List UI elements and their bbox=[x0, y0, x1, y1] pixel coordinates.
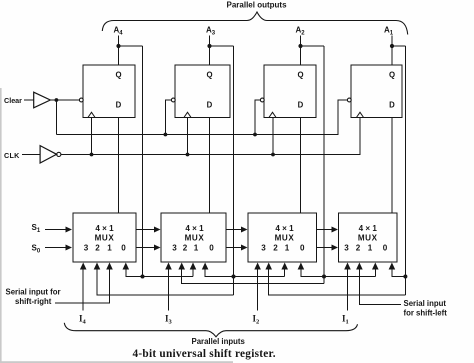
wire: CLK riser to FF1 bbox=[91, 118, 93, 155]
svg-text:2: 2 bbox=[183, 244, 188, 253]
wire: MUX1 input 0 hold feedback segment bbox=[126, 268, 193, 277]
arrowhead MUX4 input 1 bbox=[372, 263, 379, 270]
wire: S1 rail MUX1 to MUX2 bbox=[136, 229, 155, 231]
wire: MUX3 input 0 hold feedback segment bbox=[301, 268, 375, 277]
svg-text:A3: A3 bbox=[206, 26, 216, 37]
wire: node A1 to FF4 Q input bbox=[391, 46, 393, 65]
wire: A1 terminal stub bbox=[391, 36, 393, 47]
svg-text:Q: Q bbox=[389, 70, 395, 79]
wire: MUX3 output to FF3 D input bbox=[300, 118, 302, 214]
wire: S1 rail MUX3 to MUX4 bbox=[317, 229, 333, 231]
wire: A2 terminal stub bbox=[300, 36, 302, 47]
junction dot bus at A3 channel bbox=[232, 275, 236, 279]
svg-text:Parallel outputs: Parallel outputs bbox=[227, 1, 288, 10]
wire: parallel input I4 stem to MUX1 input 3 bbox=[82, 268, 84, 311]
wire: MUX4 output to FF4 D input bbox=[391, 118, 393, 214]
svg-text:I2: I2 bbox=[253, 314, 260, 326]
svg-text:3: 3 bbox=[172, 244, 177, 253]
FF3 clear input bubble bbox=[260, 98, 264, 102]
junction dot bus at A2 channel bbox=[322, 275, 326, 279]
wire: MUX1 input 2 from A3 channel bbox=[97, 268, 234, 295]
inverter U2 (CLK buffer triangle) bbox=[40, 146, 57, 163]
svg-text:S0: S0 bbox=[32, 244, 41, 255]
svg-text:Q: Q bbox=[115, 70, 121, 79]
inverter U1 (Clear buffer triangle) bbox=[34, 92, 51, 108]
junction dot CLK at FF2 bbox=[186, 153, 190, 157]
bubble on CLK inverter output bbox=[57, 152, 61, 156]
multiplexer MUX2 box bbox=[161, 213, 226, 262]
wire: parallel input I3 stem to MUX2 input 3 bbox=[168, 268, 170, 311]
wire: MUX1 output to FF1 D input bbox=[118, 118, 120, 214]
arrowhead MUX4 input 3 bbox=[344, 263, 351, 270]
svg-text:D: D bbox=[116, 101, 122, 110]
svg-text:4 × 1: 4 × 1 bbox=[359, 224, 378, 233]
arrowhead S1 into MUX4 bbox=[332, 227, 339, 233]
node A3 junction dot bbox=[207, 44, 211, 48]
svg-text:1: 1 bbox=[107, 244, 112, 253]
wire: CLK riser to FF2 bbox=[187, 118, 189, 155]
svg-text:4-bit universal shift register: 4-bit universal shift register. bbox=[133, 348, 276, 360]
bottom brace for parallel inputs bbox=[64, 323, 357, 337]
wire: A3 terminal stub bbox=[209, 36, 211, 47]
junction dot clear rail at FF2 riser bbox=[164, 133, 168, 137]
wire: node A2 feedback to channel bbox=[301, 45, 325, 47]
svg-text:0: 0 bbox=[209, 244, 214, 253]
arrowhead MUX2 input 0 bbox=[202, 263, 209, 270]
svg-text:A4: A4 bbox=[114, 26, 124, 37]
junction dot bus at A1 channel bbox=[403, 275, 407, 279]
arrowhead S1 into MUX1 bbox=[66, 227, 73, 233]
arrowhead S0 into MUX3 bbox=[241, 245, 248, 251]
wire: MUX4 input 0 hold feedback segment bbox=[392, 268, 406, 277]
svg-text:4 × 1: 4 × 1 bbox=[95, 224, 114, 233]
svg-text:D: D bbox=[298, 101, 304, 110]
wire: S1 input arrow into MUX1 bbox=[45, 229, 66, 231]
wire: node A2 to FF3 Q input bbox=[300, 46, 302, 65]
arrowhead MUX3 input 3 bbox=[254, 263, 261, 270]
svg-text:4 × 1: 4 × 1 bbox=[275, 224, 294, 233]
wire: node A4 feedback to channel bbox=[119, 45, 143, 47]
arrowhead MUX3 input 1 bbox=[281, 263, 288, 270]
FF2 clear input bubble bbox=[171, 98, 175, 102]
svg-text:CLK: CLK bbox=[4, 151, 20, 160]
arrowhead MUX2 input 3 bbox=[165, 263, 172, 270]
svg-text:shift-right: shift-right bbox=[15, 297, 52, 306]
wire: clear riser to FF2 bbox=[165, 100, 171, 135]
wire: S0 input arrow into MUX1 bbox=[45, 247, 66, 249]
svg-text:4 × 1: 4 × 1 bbox=[185, 224, 204, 233]
svg-text:I1: I1 bbox=[342, 314, 349, 326]
wire: S0 rail MUX3 to MUX4 bbox=[317, 247, 333, 249]
wire: clear riser to FF3 bbox=[255, 100, 260, 135]
wire: S0 rail MUX2 to MUX3 bbox=[226, 247, 242, 249]
svg-text:0: 0 bbox=[121, 244, 126, 253]
flip-flop FF1 box bbox=[83, 65, 135, 118]
arrowhead MUX2 input 2 bbox=[178, 263, 185, 270]
svg-text:0: 0 bbox=[383, 244, 388, 253]
multiplexer MUX3 box bbox=[248, 213, 317, 262]
junction dot CLK at FF3 bbox=[271, 153, 275, 157]
svg-text:for shift-left: for shift-left bbox=[404, 309, 448, 318]
svg-text:1: 1 bbox=[368, 244, 373, 253]
wire: A4 terminal stub bbox=[118, 36, 120, 47]
svg-text:0: 0 bbox=[300, 244, 305, 253]
arrowhead S0 into MUX4 bbox=[332, 245, 339, 251]
svg-text:A2: A2 bbox=[296, 26, 306, 37]
svg-text:1: 1 bbox=[285, 244, 290, 253]
svg-text:2: 2 bbox=[95, 244, 100, 253]
wire: node A1 feedback to channel bbox=[392, 45, 405, 47]
FF4 clock edge caret bbox=[356, 112, 363, 117]
svg-text:MUX: MUX bbox=[95, 234, 115, 243]
wire: A3 channel vertical bbox=[233, 46, 235, 295]
svg-text:Clear: Clear bbox=[4, 96, 22, 105]
arrowhead S1 into MUX2 bbox=[154, 227, 161, 233]
svg-text:Parallel inputs: Parallel inputs bbox=[192, 337, 246, 346]
wire: S0 rail MUX1 to MUX2 bbox=[136, 247, 155, 249]
node A4 junction dot bbox=[116, 44, 120, 48]
svg-text:3: 3 bbox=[84, 244, 89, 253]
wire: CLK rail across stages bbox=[61, 118, 360, 155]
svg-text:Serial input: Serial input bbox=[404, 299, 447, 308]
svg-text:1: 1 bbox=[194, 244, 199, 253]
scan artifact left edge bbox=[0, 88, 2, 363]
svg-text:Q: Q bbox=[206, 70, 212, 79]
top brace for parallel outputs bbox=[102, 12, 407, 35]
svg-text:D: D bbox=[207, 101, 213, 110]
wire: CLK label to inverter bbox=[22, 154, 40, 156]
FF4 clear input bubble bbox=[347, 98, 351, 102]
wire: CLK riser to FF3 bbox=[272, 118, 274, 155]
multiplexer MUX4 box bbox=[339, 213, 398, 262]
wire: node A3 feedback to channel bbox=[210, 45, 234, 47]
wire: parallel input I2 stem to MUX3 input 3 bbox=[257, 268, 259, 311]
wire: A4 channel vertical bbox=[142, 46, 144, 277]
wire: parallel input I1 stem to MUX4 input 3 bbox=[347, 268, 349, 311]
wire: clear rail across stages bbox=[56, 100, 347, 135]
FF1 clock edge caret bbox=[88, 112, 95, 117]
arrowhead S0 into MUX2 bbox=[154, 245, 161, 251]
flip-flop FF3 box bbox=[264, 65, 316, 118]
FF1 clear input bubble bbox=[79, 98, 83, 102]
scan artifact bottom edge bbox=[0, 361, 233, 363]
svg-text:A1: A1 bbox=[384, 26, 394, 37]
arrowhead MUX4 input 2 bbox=[356, 263, 363, 270]
svg-text:3: 3 bbox=[344, 244, 349, 253]
arrowhead MUX1 input 0 bbox=[123, 263, 130, 270]
junction dot at clear fan-out bbox=[55, 98, 59, 102]
wire: MUX4 input 2 from serial shift-left bbox=[359, 268, 401, 305]
wire: S1 rail MUX2 to MUX3 bbox=[226, 229, 242, 231]
arrowhead MUX2 input 1 bbox=[190, 263, 197, 270]
svg-text:2: 2 bbox=[356, 244, 361, 253]
node A1 junction dot bbox=[390, 44, 394, 48]
wire: node A3 to FF2 Q input bbox=[209, 46, 211, 65]
wire: MUX4 input 1 stem to bus bbox=[374, 268, 376, 277]
wire: Clear label to inverter bbox=[24, 99, 34, 101]
arrowhead MUX1 input 1 bbox=[106, 263, 113, 270]
junction dot clear rail at FF3 riser bbox=[253, 133, 257, 137]
wire: MUX2 input 2 from A2 channel bbox=[182, 268, 324, 284]
arrowhead MUX1 input 2 bbox=[94, 263, 101, 270]
svg-text:MUX: MUX bbox=[358, 234, 378, 243]
flip-flop FF2 box bbox=[175, 65, 230, 118]
wire: inverter output to FF1 clear bubble bbox=[50, 99, 79, 101]
wire: MUX2 output to FF2 D input bbox=[209, 118, 211, 214]
wire: MUX3 input 2 from A1 channel bbox=[269, 268, 406, 295]
junction dot CLK at FF1 bbox=[90, 153, 94, 157]
FF2 clock edge caret bbox=[184, 112, 191, 117]
wire: MUX1 input 1 from serial shift-right bbox=[55, 268, 110, 303]
node A2 junction dot bbox=[298, 44, 302, 48]
svg-text:Serial input for: Serial input for bbox=[6, 288, 61, 297]
arrowhead S0 into MUX1 bbox=[66, 245, 73, 251]
svg-text:I3: I3 bbox=[165, 314, 173, 326]
junction dot bus at A4 channel bbox=[141, 275, 145, 279]
arrowhead MUX3 input 2 bbox=[265, 263, 272, 270]
svg-text:I4: I4 bbox=[79, 314, 87, 326]
wire: MUX3 input 1 stem to bus bbox=[284, 268, 286, 277]
wire: A1 channel vertical bbox=[404, 46, 406, 295]
svg-text:MUX: MUX bbox=[275, 234, 295, 243]
arrowhead S1 into MUX3 bbox=[241, 227, 248, 233]
wire: MUX2 input 0 hold feedback segment bbox=[205, 268, 285, 277]
flip-flop FF4 box bbox=[351, 65, 402, 118]
svg-text:2: 2 bbox=[273, 244, 278, 253]
svg-text:MUX: MUX bbox=[185, 234, 205, 243]
FF3 clock edge caret bbox=[269, 112, 276, 117]
multiplexer MUX1 box bbox=[73, 213, 136, 262]
wire: clear drop to clear rail bbox=[55, 100, 57, 135]
svg-text:Q: Q bbox=[297, 70, 303, 79]
svg-text:3: 3 bbox=[261, 244, 266, 253]
wire: MUX2 input 1 stem to bus bbox=[192, 268, 194, 277]
arrowhead MUX3 input 0 bbox=[298, 263, 305, 270]
wire: node A4 to FF1 Q input bbox=[118, 46, 120, 65]
arrowhead MUX1 input 3 bbox=[80, 263, 87, 270]
svg-text:D: D bbox=[389, 101, 395, 110]
wire: A2 channel vertical bbox=[323, 46, 325, 284]
arrowhead MUX4 input 0 bbox=[389, 263, 396, 270]
svg-text:S1: S1 bbox=[32, 223, 41, 234]
